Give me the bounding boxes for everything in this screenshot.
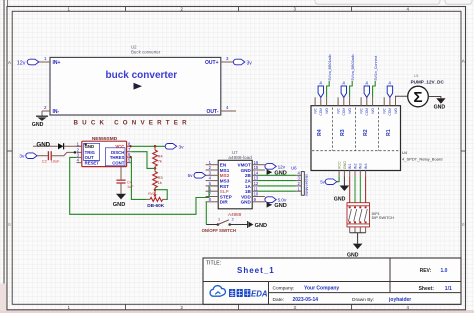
wire 1B to U6: [258, 190, 296, 192]
svg-text:Σ: Σ: [413, 89, 422, 106]
svg-text:COM: COM: [365, 108, 369, 116]
pin 3 OUT+: [221, 56, 233, 62]
window edge line left: [4, 0, 8, 284]
svg-text:buck converter: buck converter: [106, 70, 178, 81]
svg-text:DB-60K: DB-60K: [147, 203, 165, 208]
svg-text:SLP: SLP: [220, 189, 229, 194]
wire R3 junction to pot right: [155, 190, 167, 200]
ground at A4988 GND9: [267, 202, 287, 209]
svg-text:R4: R4: [317, 129, 323, 136]
svg-text:3v: 3v: [365, 81, 369, 85]
svg-text:IN1: IN1: [348, 163, 352, 169]
svg-text:U4: U4: [402, 150, 408, 155]
svg-text:1A: 1A: [245, 184, 252, 189]
svg-text:GND: GND: [113, 202, 125, 208]
pin 4 OUT-: [221, 105, 236, 111]
net flag 3v at VCC rail: [165, 144, 184, 151]
svg-text:a4988-load: a4988-load: [228, 155, 252, 160]
svg-text:R4: R4: [158, 155, 163, 159]
wire R2 N/O to net label: [373, 56, 378, 98]
svg-text:14: 14: [254, 170, 259, 175]
svg-text:1B: 1B: [245, 189, 252, 194]
svg-text:N/O: N/O: [394, 107, 398, 113]
timer NE555SMD U3: [77, 136, 132, 166]
pin 1 IN+: [39, 56, 50, 62]
svg-text:GND: GND: [241, 168, 252, 173]
svg-text:ON/OFF SWITCH: ON/OFF SWITCH: [202, 228, 236, 233]
svg-text:4_SPDT_Relay_Board: 4_SPDT_Relay_Board: [402, 156, 442, 161]
net flag 12v: [17, 59, 39, 66]
svg-text:COM: COM: [319, 108, 323, 116]
svg-text:IN2: IN2: [353, 163, 357, 169]
svg-text:IN-: IN-: [53, 109, 60, 115]
svg-text:N/O: N/O: [348, 107, 352, 113]
svg-text:R3: R3: [158, 176, 163, 180]
svg-text:GND: GND: [36, 142, 50, 149]
svg-text:10uF: 10uF: [51, 158, 61, 163]
svg-text:VCC: VCC: [338, 161, 342, 169]
svg-text:A: A: [8, 60, 11, 65]
svg-text:5V/va_BB02adb: 5V/va_BB02adb: [351, 55, 355, 81]
wire DISCH to R4/R3 junction: [131, 152, 155, 169]
svg-text:STEP: STEP: [220, 194, 232, 199]
net flag 3v at R1 COM: [387, 81, 392, 98]
svg-text:OUT+: OUT+: [205, 60, 219, 66]
wire DIP to ground: [350, 227, 366, 244]
svg-text:R2: R2: [363, 129, 369, 136]
ground below DIP switch: [347, 244, 362, 259]
svg-text:DIR: DIR: [220, 200, 229, 205]
svg-text:GND: GND: [434, 105, 446, 111]
toolbar remnants top right: [315, 0, 472, 4]
svg-text:joyhaider: joyhaider: [388, 297, 411, 303]
wire 1A to U6: [258, 185, 296, 187]
wire GND net to pin1: [33, 142, 58, 149]
ground at A4988 GND15: [267, 169, 287, 176]
svg-text:N/O: N/O: [371, 107, 375, 113]
potentiometer RV2 DB-60K: [147, 190, 166, 208]
svg-text:N/O: N/O: [325, 107, 329, 113]
svg-text:RST: RST: [220, 184, 229, 189]
svg-text:3v: 3v: [342, 81, 346, 85]
DIP switch DIP1: [347, 203, 394, 227]
svg-text:REV:: REV:: [420, 268, 432, 274]
svg-text:GND: GND: [241, 200, 252, 205]
net flag 5.0v at VDD: [265, 197, 287, 203]
pump motor U1 PUMP_12V_DC: [408, 74, 445, 107]
svg-text:3v: 3v: [388, 81, 392, 85]
driver A4988 U7: [206, 150, 265, 209]
relay board U4 4_SPDT_Relay_Board: [311, 97, 442, 176]
svg-text:IN4: IN4: [364, 163, 368, 169]
svg-text:VCC: VCC: [115, 144, 124, 149]
svg-text:GND: GND: [255, 223, 267, 229]
svg-text:Drawn By:: Drawn By:: [352, 297, 374, 303]
ground buck input: [32, 116, 48, 128]
svg-text:Sheet:: Sheet:: [419, 286, 435, 292]
svg-text:stepper-Motor: stepper-Motor: [305, 174, 309, 197]
svg-text:3v: 3v: [179, 145, 185, 151]
svg-text:VMOT: VMOT: [238, 163, 251, 168]
svg-text:Company:: Company:: [273, 286, 295, 292]
svg-text:GND: GND: [343, 161, 347, 170]
svg-text:R3: R3: [340, 129, 346, 136]
ground at switch: [248, 221, 267, 229]
svg-text:16: 16: [254, 160, 259, 165]
svg-text:U1: U1: [414, 74, 419, 78]
svg-text:GND: GND: [274, 203, 286, 209]
svg-text:N/C: N/C: [359, 107, 363, 113]
svg-text:MS2: MS2: [220, 173, 230, 178]
svg-text:A: A: [462, 59, 465, 64]
ground at pump motor: [428, 97, 445, 111]
wire THRES to potentiometer: [131, 157, 146, 199]
svg-text:BUCK CONVERTER: BUCK CONVERTER: [74, 120, 191, 127]
EasyEDA logo: [210, 286, 268, 299]
svg-text:2B: 2B: [245, 173, 252, 178]
svg-text:13: 13: [254, 176, 259, 181]
switch S1 ON/OFF: [202, 202, 248, 233]
svg-text:5v: 5v: [188, 173, 194, 178]
svg-text:PUMP_12V_DC: PUMP_12V_DC: [411, 79, 445, 84]
svg-text:MS3: MS3: [220, 179, 230, 184]
svg-text:IN3: IN3: [359, 163, 363, 169]
svg-text:OUT-: OUT-: [207, 109, 219, 115]
svg-text:1: 1: [218, 217, 220, 221]
pin 2 IN-: [42, 105, 50, 116]
svg-text:R1: R1: [386, 129, 392, 136]
label A4988: [228, 212, 242, 217]
svg-text:CONT: CONT: [112, 161, 125, 166]
svg-text:COM: COM: [388, 108, 392, 116]
svg-text:TRIG: TRIG: [85, 150, 96, 155]
svg-text:3v: 3v: [19, 153, 25, 159]
ground below C4: [113, 194, 126, 208]
capacitor C2 10uF: [42, 151, 60, 163]
svg-text:EN: EN: [220, 163, 227, 168]
svg-text:11: 11: [254, 186, 259, 191]
label BUCK CONVERTER: [74, 120, 191, 127]
wire R1 N/O to pump motor: [396, 96, 408, 97]
svg-text:B: B: [462, 222, 465, 227]
svg-text:2A: 2A: [245, 179, 252, 184]
svg-text:U6: U6: [291, 166, 297, 171]
svg-text:15: 15: [254, 165, 259, 170]
svg-text:N/C: N/C: [313, 107, 317, 113]
svg-text:Sheet_1: Sheet_1: [237, 266, 275, 275]
svg-text:C4: C4: [127, 180, 132, 184]
svg-text:5V/va_BB01adb: 5V/va_BB01adb: [328, 55, 332, 81]
capacitor C4 1uF: [116, 167, 134, 194]
svg-text:DISCH: DISCH: [111, 150, 124, 155]
svg-text:OUT: OUT: [85, 155, 94, 160]
wire OUT to STEP (long green): [70, 157, 219, 214]
svg-text:GND: GND: [85, 144, 95, 149]
wire R4 N/O to net label: [327, 55, 332, 98]
svg-text:10: 10: [254, 192, 259, 197]
buck converter U2: [50, 44, 221, 115]
svg-text:COM: COM: [342, 108, 346, 116]
resistor R3 1k: [153, 168, 163, 191]
svg-text:GND: GND: [32, 122, 44, 128]
svg-text:TITLE:: TITLE:: [206, 261, 221, 267]
net flag 12v at VMOT: [265, 164, 286, 170]
svg-text:EDA: EDA: [251, 290, 268, 299]
wire 2A to U6: [258, 180, 296, 182]
svg-text:1k: 1k: [158, 181, 162, 185]
svg-text:3v: 3v: [319, 81, 323, 85]
wire R3 N/O to net label: [350, 55, 355, 98]
wire IN2 to DIP: [354, 176, 356, 203]
wire IN1 to DIP: [349, 176, 351, 203]
wire VCC rail green: [131, 145, 165, 148]
net flag 3v at R2 COM: [364, 81, 369, 98]
svg-text:2: 2: [232, 217, 234, 221]
svg-text:3v: 3v: [247, 60, 253, 66]
svg-text:GND: GND: [334, 197, 346, 203]
svg-text:Your Company: Your Company: [304, 286, 339, 292]
net flag 3v at R4 COM: [318, 81, 323, 98]
svg-text:THRES: THRES: [110, 155, 125, 160]
svg-text:Buck converter: Buck converter: [131, 49, 161, 54]
net flag 5v at relay VCC: [320, 176, 339, 184]
svg-text:RESET: RESET: [85, 161, 100, 166]
svg-text:MS1: MS1: [220, 168, 230, 173]
net flag 3v at buck output: [233, 59, 252, 66]
svg-text:IN+: IN+: [53, 60, 61, 66]
wire IN4 to DIP: [365, 176, 367, 203]
wire C2 to TRIG: [51, 151, 76, 156]
svg-text:VDD: VDD: [241, 194, 251, 199]
svg-text:A4988: A4988: [228, 212, 242, 217]
net flag 3v at R3 COM: [341, 81, 346, 98]
svg-text:2023-05-14: 2023-05-14: [293, 297, 319, 303]
svg-text:RV2: RV2: [148, 192, 155, 196]
wire IN3 to DIP: [359, 176, 361, 203]
svg-text:Date:: Date:: [273, 297, 284, 303]
ground at relay GND: [334, 176, 349, 202]
net flag 3v at C2: [19, 153, 47, 160]
svg-text:7k: 7k: [158, 160, 162, 164]
diode D1: [58, 143, 82, 149]
resistor R4 7k: [153, 146, 163, 169]
svg-text:N/C: N/C: [383, 107, 387, 113]
svg-text:12: 12: [254, 181, 259, 186]
svg-text:1.0: 1.0: [441, 268, 448, 274]
svg-text:1/1: 1/1: [445, 286, 452, 292]
svg-text:5.0v: 5.0v: [278, 198, 287, 203]
svg-text:DIP SWITCH: DIP SWITCH: [372, 216, 395, 220]
svg-text:12v: 12v: [278, 165, 286, 170]
title block: [203, 258, 461, 304]
svg-text:N/C: N/C: [336, 107, 340, 113]
svg-text:C2: C2: [42, 158, 48, 163]
svg-text:1uF: 1uF: [127, 185, 134, 189]
net flag 5v at MS2: [188, 173, 206, 179]
wire 2B to U6: [258, 174, 296, 176]
svg-text:5V/1n_Connect: 5V/1n_Connect: [374, 56, 378, 81]
svg-text:B: B: [8, 222, 11, 227]
svg-text:12v: 12v: [17, 61, 26, 67]
connector U6 stepper motor: [291, 166, 309, 198]
